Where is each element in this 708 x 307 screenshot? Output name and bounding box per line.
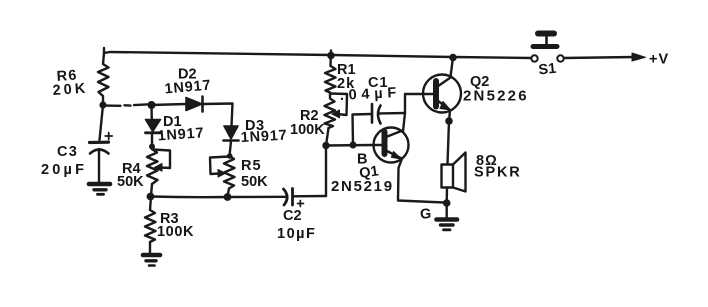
wire top rail middle <box>331 55 453 57</box>
capacitor C1 <box>372 104 405 124</box>
diode D1 <box>146 105 161 149</box>
wire Q1 base <box>326 144 374 147</box>
resistor R3 <box>145 197 156 253</box>
wire node to D2 <box>151 104 186 105</box>
node R4 bottom <box>147 193 155 201</box>
capacitor C2 <box>284 189 327 207</box>
svg-text:+V: +V <box>649 52 669 68</box>
wire Q1 emitter <box>398 159 444 203</box>
svg-text:.04µF: .04µF <box>339 85 401 104</box>
node R5 bottom <box>224 193 232 201</box>
node D3 bottom <box>227 153 233 159</box>
node left column <box>99 101 106 108</box>
node Q1 base junction <box>322 142 329 149</box>
potentiometer R4 <box>147 149 170 196</box>
svg-text:G: G <box>420 207 431 223</box>
svg-text:R5: R5 <box>241 158 262 174</box>
ground under speaker <box>437 203 458 230</box>
svg-text:20K: 20K <box>52 81 89 99</box>
svg-text:50K: 50K <box>117 174 144 190</box>
node C1 left drop <box>349 141 356 148</box>
svg-text:C3: C3 <box>57 144 78 160</box>
svg-text:2N5226: 2N5226 <box>463 88 529 105</box>
node Q2 collector top <box>449 54 457 62</box>
svg-text:1N917: 1N917 <box>157 125 205 144</box>
wire D3 to R5 <box>230 141 232 156</box>
node D1 top <box>148 101 156 109</box>
node D1 bottom <box>149 144 155 150</box>
svg-text:100K: 100K <box>157 224 194 240</box>
wire Q2 collector <box>451 57 454 77</box>
capacitor C3 <box>90 105 113 182</box>
wire Q2 emitter <box>449 111 450 122</box>
svg-text:10µF: 10µF <box>277 226 316 242</box>
wire D2 to corner down to D3 <box>203 104 233 127</box>
ground under C3 <box>89 184 110 194</box>
svg-text:100K: 100K <box>290 122 325 138</box>
wire node row <box>105 104 147 105</box>
wire switch to +V <box>564 57 634 58</box>
transistor Q2 <box>423 75 461 113</box>
wire top rail left <box>104 48 331 55</box>
diode D3 <box>224 126 239 141</box>
svg-text:50K: 50K <box>241 174 268 190</box>
wire C1 right riser to Q2 base <box>405 94 423 113</box>
svg-text:SPKR: SPKR <box>474 165 522 181</box>
wire C1 left leg <box>353 114 372 145</box>
wire emitter node to speaker <box>448 121 450 164</box>
potentiometer R5 <box>210 156 235 197</box>
node R1 top <box>327 52 335 60</box>
wire Q1 collector <box>403 113 405 132</box>
switch S1 <box>531 34 563 62</box>
svg-text:C2: C2 <box>283 208 302 224</box>
ground under R3 <box>143 255 160 266</box>
svg-text:1N917: 1N917 <box>164 77 212 97</box>
resistor R1 <box>325 51 336 93</box>
svg-text:1N917: 1N917 <box>240 128 288 146</box>
speaker SPKR <box>442 153 466 204</box>
transistor Q1 <box>374 128 409 163</box>
potentiometer R2 <box>325 93 348 146</box>
node Q2 emitter <box>445 117 453 125</box>
resistor R6 <box>98 53 109 105</box>
wire to C2 <box>228 196 288 199</box>
arrow +V <box>632 53 646 61</box>
svg-text:20µF: 20µF <box>41 162 87 178</box>
svg-text:S1: S1 <box>538 61 557 79</box>
svg-text:2N5219: 2N5219 <box>331 178 394 195</box>
wire C2 riser to base node <box>325 146 327 197</box>
wire bottom rail <box>151 195 228 198</box>
node speaker ground <box>443 199 451 207</box>
diode D2 <box>186 97 203 112</box>
wire top rail to switch <box>453 57 531 58</box>
